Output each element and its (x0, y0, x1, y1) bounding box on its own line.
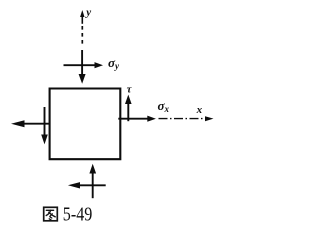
tau arrow (up on right face) (125, 95, 132, 122)
shear arrow on left face (down) (41, 107, 48, 144)
y-axis (80, 10, 84, 45)
x-axis dash-dot line (159, 118, 206, 120)
svg-text:τ: τ (127, 83, 133, 95)
sigma_y arrow (down onto top face) (79, 50, 86, 84)
svg-text:σy: σy (108, 55, 120, 71)
svg-text:5-49: 5-49 (63, 204, 93, 226)
sigma_x arrow (right, off right face) (118, 116, 156, 122)
x-axis arrowhead (205, 116, 214, 121)
svg-text:σx: σx (158, 98, 170, 114)
sigma arrow (up onto bottom face) (89, 164, 96, 199)
svg-text:y: y (84, 6, 91, 18)
shear arrow on bottom face (left) (68, 182, 106, 188)
caption glyph "tu" (drawn) (44, 207, 58, 221)
stress element square (50, 89, 121, 160)
sigma arrow (left, off left face) (11, 120, 49, 127)
shear arrow on top face (right) (64, 62, 104, 68)
svg-text:x: x (196, 104, 203, 116)
